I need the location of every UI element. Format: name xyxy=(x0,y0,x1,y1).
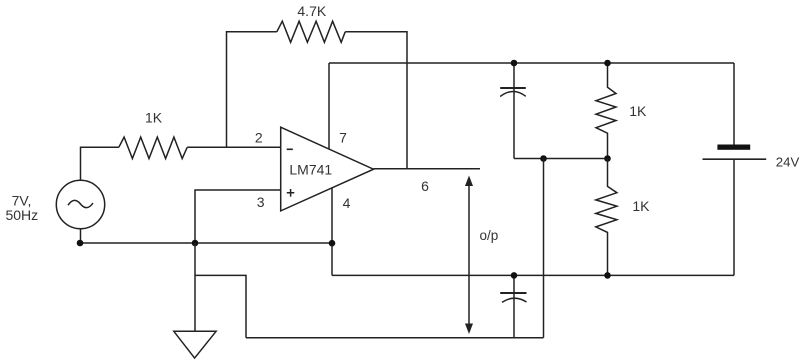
wire R1 to op-amp pin 2 xyxy=(187,146,281,148)
battery B1 top lead xyxy=(733,63,735,145)
wire pin 7 to top rail xyxy=(328,63,330,149)
svg-text:1K: 1K xyxy=(632,198,650,214)
node dot R3 bottom xyxy=(604,155,611,162)
wire feedback left vertical xyxy=(227,32,277,148)
wire bottom left rail xyxy=(81,242,333,244)
node dot pin4 junction xyxy=(329,240,336,247)
svg-text:4.7K: 4.7K xyxy=(297,3,326,19)
battery B1 negative plate xyxy=(703,158,767,160)
op-amp U1 LM741 triangle xyxy=(281,127,374,211)
svg-text:7: 7 xyxy=(339,129,347,145)
wire output pin 6 xyxy=(374,168,481,170)
node dot R3 top xyxy=(604,60,611,67)
resistor R4 1K lower vertical xyxy=(596,159,617,276)
svg-text:1K: 1K xyxy=(629,103,647,119)
wire bottom rail xyxy=(246,337,544,339)
svg-text:3: 3 xyxy=(257,194,265,210)
svg-text:24V: 24V xyxy=(776,154,800,169)
wire pin 3 xyxy=(195,190,281,243)
node dot C1 top xyxy=(511,60,518,67)
voltage source V1 circle xyxy=(56,180,104,228)
capacitor C2 lead xyxy=(513,275,515,337)
svg-text:2: 2 xyxy=(255,130,263,146)
node dot C2 top xyxy=(511,272,518,279)
label V1 value 7V, 50Hz xyxy=(5,193,38,223)
wire source top to R1 xyxy=(81,147,119,180)
ground symbol xyxy=(174,331,216,358)
wire pin 4 to mid rail xyxy=(331,188,333,275)
node dot R4 bottom xyxy=(604,272,611,279)
capacitor C1 plates xyxy=(500,87,526,89)
svg-text:50Hz: 50Hz xyxy=(5,207,38,223)
svg-text:6: 6 xyxy=(421,178,429,194)
svg-text:LM741: LM741 xyxy=(289,162,332,178)
svg-text:1K: 1K xyxy=(145,109,163,125)
wire R2 to output node xyxy=(345,32,407,169)
wire source bottom xyxy=(80,229,82,243)
wire mid tap to bottom rail xyxy=(543,159,545,338)
resistor R1 1K horizontal xyxy=(119,137,187,158)
svg-text:4: 4 xyxy=(343,195,351,211)
svg-text:o/p: o/p xyxy=(480,228,499,243)
capacitor C1 lead xyxy=(513,63,515,159)
battery B1 bottom lead xyxy=(733,159,735,275)
op-amp plus sign xyxy=(287,189,295,197)
wire ground branch to bottom rail xyxy=(195,275,246,337)
wire top rail xyxy=(329,62,734,64)
wire ground lead xyxy=(194,243,196,331)
o/p arrow xyxy=(468,184,470,325)
op-amp minus sign xyxy=(287,148,293,150)
node dot mid tap xyxy=(540,155,547,162)
wire C1 bottom node xyxy=(514,158,608,160)
resistor R3 1K upper vertical xyxy=(596,63,616,159)
battery B1 positive plate xyxy=(717,145,750,150)
capacitor C2 plates xyxy=(500,292,526,294)
node dot source bottom xyxy=(77,240,84,247)
wire mid rail xyxy=(332,274,734,276)
node dot ground branch xyxy=(192,240,199,247)
resistor R2 4.7K feedback xyxy=(277,21,345,42)
